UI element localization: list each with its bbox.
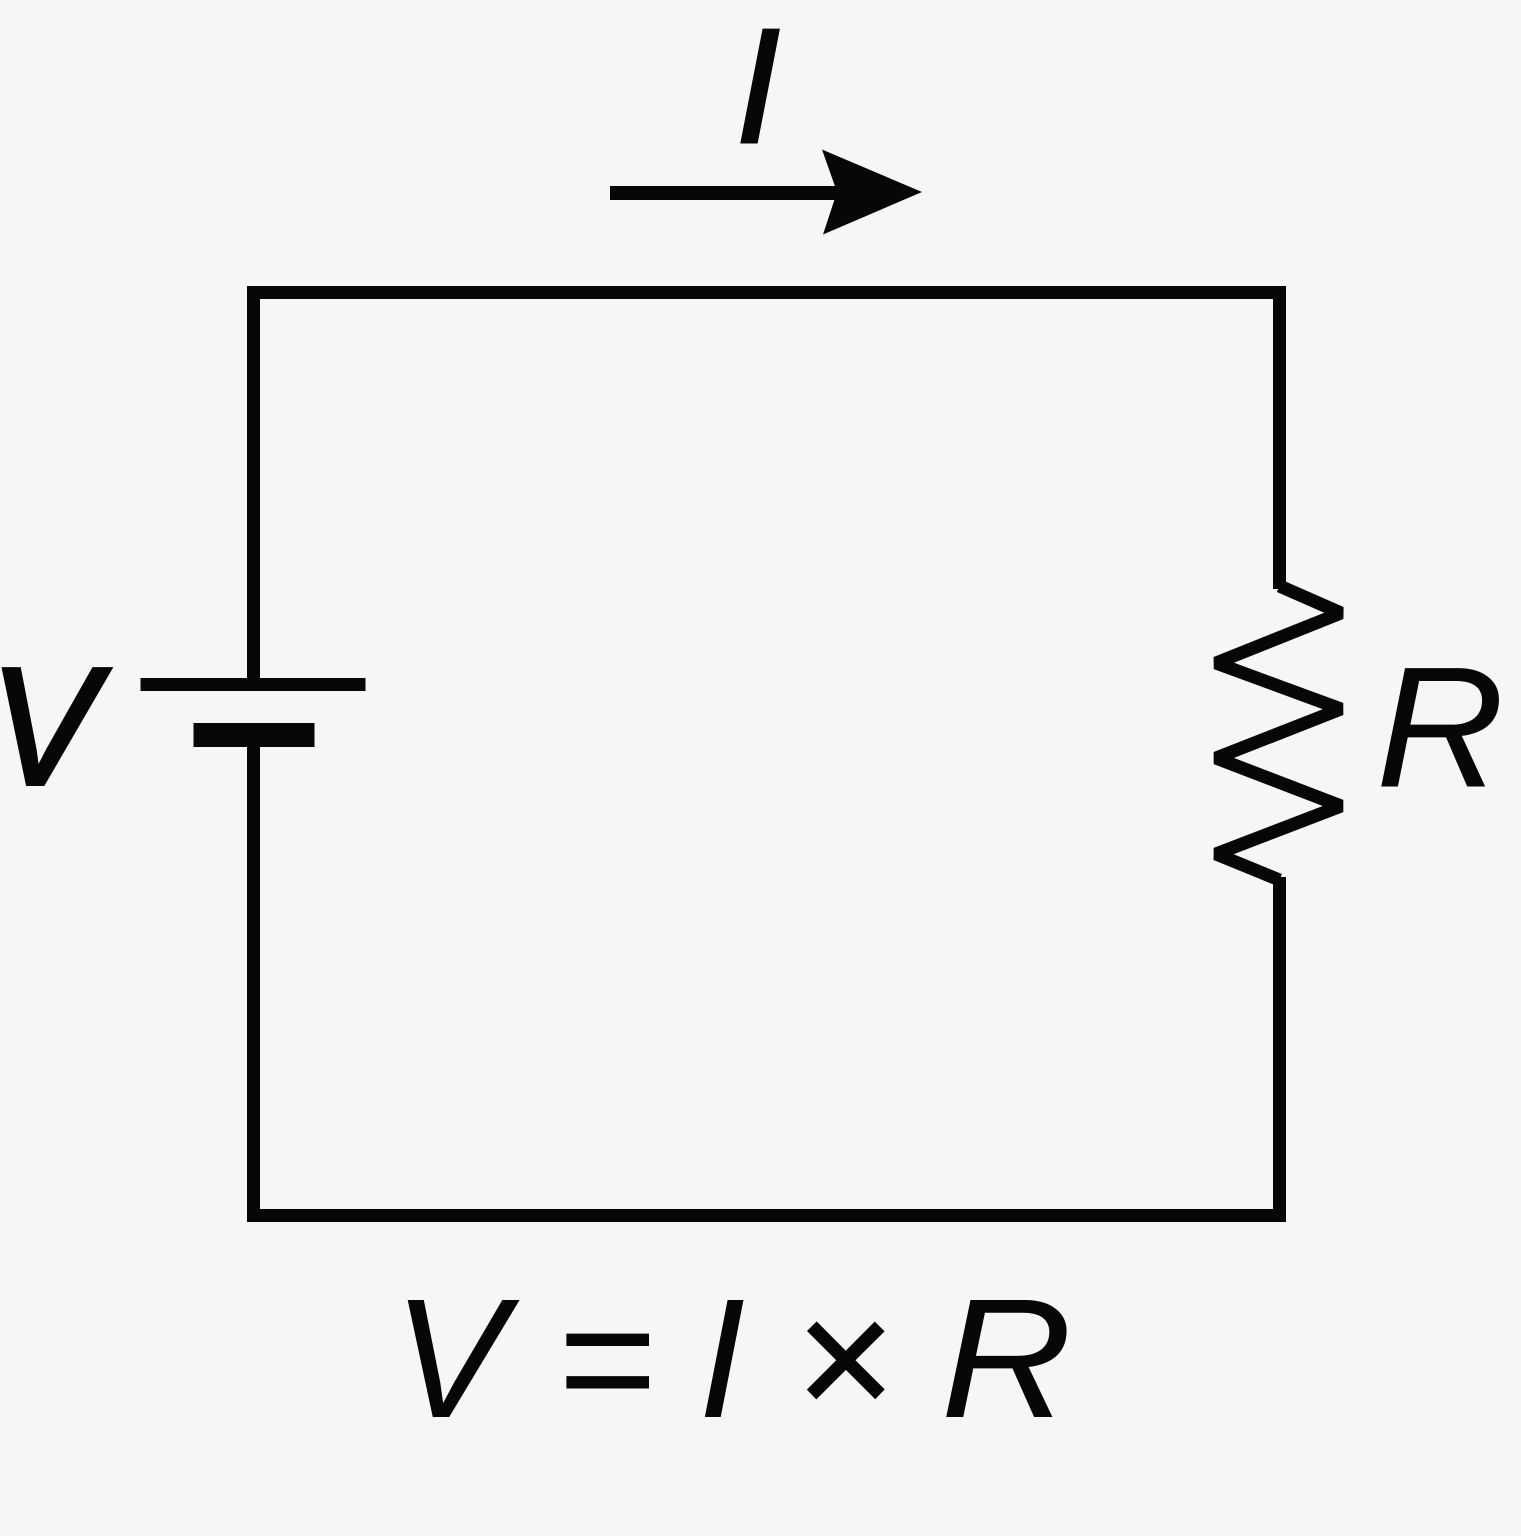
current arrow shaft [610,186,850,200]
wire: lower loop (right drop, bottom rail, left drop) [254,746,1280,1216]
svg-text:R: R [1376,632,1505,824]
resistor R zigzag [1216,586,1341,880]
battery V: long positive plate [141,678,366,691]
svg-text:V = I ×: V = I × [393,1264,894,1454]
current arrow head [822,150,922,235]
battery V: short thick negative plate [194,723,315,747]
svg-text:I: I [735,0,781,178]
svg-text:R: R [941,1265,1073,1454]
svg-text:V: V [0,632,111,819]
wire: upper loop (left riser, top rail, right riser) [254,293,1280,679]
